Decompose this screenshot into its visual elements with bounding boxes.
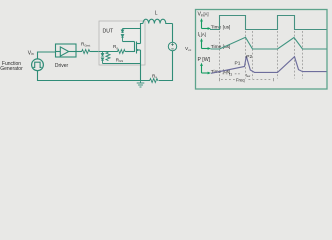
source Vcc bbox=[168, 42, 176, 50]
axis bottom plot bbox=[202, 66, 209, 74]
svg-text:P1: P1 bbox=[235, 61, 241, 67]
gridline x=219 bbox=[219, 31, 221, 79]
svg-text:Freq: Freq bbox=[236, 77, 245, 82]
gridline x=277 bbox=[277, 31, 279, 79]
wire zener to gate bar bbox=[123, 41, 135, 43]
zener pair gate-source bbox=[101, 52, 104, 64]
gridline x=302 bbox=[302, 31, 304, 79]
gridline x=252 bbox=[252, 31, 254, 79]
annotation t1 bbox=[223, 73, 229, 75]
gridline x=294 bbox=[294, 31, 296, 79]
wire Rg to gate bbox=[126, 51, 134, 53]
axis top plot bbox=[202, 21, 209, 29]
wire fg top to driver bbox=[38, 52, 56, 59]
resistor RGS bbox=[106, 52, 110, 61]
resistor Rs bbox=[149, 79, 159, 83]
gridline x=245 bbox=[245, 31, 247, 79]
svg-text:Rg: Rg bbox=[113, 44, 118, 50]
waveform panel frame bbox=[196, 10, 328, 90]
svg-text:L: L bbox=[155, 10, 158, 16]
svg-text:Vin: Vin bbox=[28, 50, 34, 56]
svg-text:P [W]: P [W] bbox=[198, 57, 211, 63]
svg-text:RGS: RGS bbox=[116, 57, 124, 63]
svg-text:P2: P2 bbox=[246, 54, 252, 60]
wire RGext to DUT bbox=[91, 51, 100, 53]
svg-text:Generator: Generator bbox=[0, 66, 23, 72]
wire drain top bbox=[123, 24, 144, 29]
waveform P power bbox=[211, 56, 327, 73]
wire driver to RGext bbox=[76, 51, 81, 53]
wire bottom rail bbox=[38, 71, 150, 81]
svg-text:Driver: Driver bbox=[55, 63, 69, 69]
svg-text:DUT: DUT bbox=[103, 29, 114, 35]
waveform Vin square bbox=[210, 16, 327, 30]
svg-text:Vcc: Vcc bbox=[185, 46, 192, 52]
function generator V1 bbox=[32, 59, 44, 71]
wire source rail inside DUT bbox=[103, 64, 141, 81]
wire gate inside DUT bbox=[99, 51, 117, 53]
driver U1 bbox=[56, 44, 77, 57]
zener pair drain-gate bbox=[121, 29, 124, 42]
DUT box bbox=[99, 21, 145, 65]
annotation Freq span bbox=[219, 78, 221, 81]
svg-text:Rs: Rs bbox=[152, 73, 157, 79]
wire Vcc down bbox=[159, 51, 173, 81]
svg-text:RGext: RGext bbox=[81, 42, 90, 48]
resistor Rg internal bbox=[117, 50, 126, 54]
inductor L bbox=[143, 19, 173, 23]
ground bbox=[137, 81, 145, 88]
waveform IL sawtooth bbox=[211, 37, 327, 49]
wire inductor to Vcc bbox=[172, 24, 174, 43]
axis mid plot bbox=[202, 41, 209, 49]
resistor RGext bbox=[81, 50, 90, 54]
transistor Q1 MOSFET bbox=[135, 29, 141, 64]
source arrow bbox=[137, 49, 140, 51]
